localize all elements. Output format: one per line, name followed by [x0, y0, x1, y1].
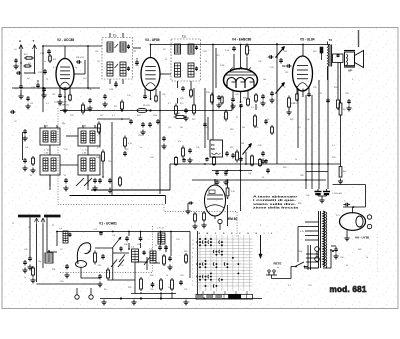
svg-text:mod. 681: mod. 681	[330, 285, 367, 294]
svg-text:R34: R34	[150, 275, 153, 277]
svg-text:R32: R32	[88, 251, 91, 253]
svg-text:5n: 5n	[210, 139, 212, 141]
wire v x197	[197, 231, 199, 299]
cap x162	[161, 136, 166, 149]
resistor R10b	[96, 150, 104, 178]
resistor R10	[82, 103, 90, 115]
svg-text:L2: L2	[28, 227, 30, 229]
fuse cluster	[327, 198, 335, 252]
wire v x319	[318, 80, 320, 189]
svg-text:C38: C38	[345, 93, 348, 95]
svg-text:11: 11	[192, 244, 194, 246]
cap右 C22	[260, 151, 269, 174]
svg-text:R25: R25	[290, 119, 293, 121]
cluster under fono	[214, 150, 238, 185]
V5 pin parts	[294, 93, 311, 106]
potentiometer P1	[276, 47, 288, 64]
capacitor C12	[41, 87, 46, 98]
bus y190 heavy	[91, 189, 170, 191]
svg-text:47k: 47k	[178, 141, 181, 143]
wire V3 to V4	[160, 73, 171, 75]
svg-text:T: T	[33, 39, 35, 43]
svg-text:C11: C11	[30, 103, 33, 105]
svg-text:AP: AP	[348, 69, 352, 73]
svg-text:L27: L27	[97, 61, 100, 63]
dual filter capacitor C30	[315, 189, 343, 203]
V2 right parts	[74, 57, 85, 74]
speaker coupling box	[333, 54, 344, 63]
svg-text:C 100+100: C 100+100	[332, 193, 343, 195]
wire V2 anode	[64, 46, 66, 59]
svg-text:5k: 5k	[64, 175, 66, 177]
coil can L34	[78, 153, 100, 176]
svg-text:R26: R26	[125, 149, 128, 151]
svg-text:C59: C59	[308, 285, 311, 287]
svg-text:A B C D E F G H I L: A B C D E F G H I L	[199, 232, 276, 235]
svg-text:6: 6	[192, 265, 193, 267]
annotation note	[253, 195, 298, 210]
svg-text:1k: 1k	[366, 257, 368, 259]
loudspeaker AP	[344, 51, 364, 73]
svg-text:C52: C52	[143, 253, 146, 255]
speaker col parts	[326, 98, 351, 111]
svg-text:C44: C44	[150, 157, 153, 159]
svg-text:R7: R7	[95, 127, 97, 129]
resistor R21	[338, 167, 347, 184]
svg-text:R9 C26: R9 C26	[143, 105, 151, 107]
T2 below parts	[180, 86, 192, 100]
EM80 anode wire	[214, 180, 216, 185]
svg-text:3: 3	[192, 277, 193, 279]
tube V4	[224, 38, 258, 92]
svg-text:EM 80: EM 80	[228, 217, 237, 221]
capacitor C20a	[38, 69, 47, 75]
cluster x185 y150	[182, 146, 193, 163]
bus y180	[192, 179, 326, 181]
svg-text:0,1: 0,1	[53, 67, 56, 69]
svg-text:C53: C53	[176, 239, 179, 241]
component value labels	[12, 49, 368, 291]
svg-text:C40: C40	[306, 119, 309, 121]
transformer bottom wires	[304, 249, 332, 268]
FONO input box	[210, 140, 223, 157]
svg-text:R11 C14: R11 C14	[76, 57, 85, 59]
svg-text:0,5M: 0,5M	[220, 65, 225, 67]
wave switch 3	[119, 246, 125, 262]
resistor Ra V4	[246, 44, 251, 57]
coil can L31	[40, 126, 60, 146]
mains plug RETE	[266, 262, 296, 279]
svg-text:50: 50	[205, 61, 207, 63]
svg-text:C49: C49	[24, 249, 27, 251]
bus y294	[131, 293, 176, 295]
svg-text:R36: R36	[298, 203, 301, 205]
V2 pins	[60, 88, 70, 97]
V4 right cathode	[255, 93, 266, 110]
svg-text:C56: C56	[150, 289, 153, 291]
resistor R1	[49, 54, 57, 63]
L7 L8 coils	[157, 228, 168, 251]
V5 anode wire	[302, 44, 304, 56]
resistor R22	[226, 180, 235, 199]
tube V2	[56, 38, 74, 90]
junction dots mid	[64, 109, 152, 111]
fono col parts	[203, 114, 273, 159]
svg-text:1,2k: 1,2k	[88, 89, 92, 91]
wire v x306	[305, 95, 307, 189]
bottom bus	[100, 297, 262, 299]
svg-text:C35: C35	[313, 87, 316, 89]
svg-text:4,7: 4,7	[168, 103, 171, 105]
V1 column parts	[94, 251, 110, 287]
V5 grid cap	[282, 64, 292, 68]
svg-text:5p: 5p	[240, 159, 242, 161]
oval resistor R9b	[135, 108, 147, 117]
tube V3	[141, 38, 160, 91]
svg-text:1M: 1M	[284, 51, 287, 53]
antenna terminal T	[33, 39, 37, 72]
wire v x277	[276, 43, 278, 164]
direction arrow	[259, 235, 262, 259]
output transformer T3	[328, 38, 333, 80]
cluster y178	[98, 176, 121, 193]
svg-text:50: 50	[30, 175, 32, 177]
svg-text:1: 1	[192, 285, 193, 287]
svg-text:1M: 1M	[223, 117, 226, 119]
svg-text:R24: R24	[334, 87, 337, 89]
svg-text:1k: 1k	[165, 59, 167, 61]
svg-text:FO: FO	[211, 144, 215, 147]
T2 lower cluster	[175, 88, 196, 121]
svg-text:0,1: 0,1	[251, 107, 254, 109]
faint dotted edge	[377, 234, 379, 272]
wire top bus B+	[150, 44, 330, 46]
svg-text:47n: 47n	[104, 289, 107, 291]
trimmer circles	[75, 288, 93, 299]
coil L6	[150, 249, 157, 264]
svg-text:T.1: T.1	[113, 34, 117, 38]
capacitor C a V4	[225, 46, 236, 52]
svg-text:1k: 1k	[166, 275, 168, 277]
primary winding	[308, 245, 311, 270]
wire v x205	[204, 88, 206, 148]
svg-text:C55: C55	[180, 275, 183, 277]
antenna coil L3	[45, 250, 53, 263]
wire matrix top	[220, 205, 228, 230]
bus y195 heavy	[70, 196, 166, 205]
wire v x160	[159, 91, 161, 194]
svg-text:C30: C30	[162, 94, 165, 96]
wire frontend right	[189, 232, 191, 251]
V4 left parts	[206, 92, 227, 122]
svg-text:4,7: 4,7	[112, 115, 115, 117]
svg-text:1,2k: 1,2k	[231, 191, 235, 193]
T1 caps	[127, 45, 130, 71]
capacitor C5b	[25, 96, 30, 109]
wire input top	[42, 45, 65, 112]
svg-text:47k: 47k	[28, 63, 31, 65]
svg-text:1n: 1n	[267, 119, 269, 121]
model label	[330, 285, 367, 294]
capacitor C9	[14, 84, 24, 99]
svg-text:L1: L1	[12, 223, 14, 225]
wave switch 2	[111, 260, 124, 268]
svg-text:C27: C27	[168, 127, 171, 129]
coil wires	[50, 136, 88, 186]
IF transformer T2 enclosure	[171, 39, 201, 81]
svg-text:C42: C42	[64, 149, 67, 151]
svg-text:5p: 5p	[75, 67, 77, 69]
resistor R6	[114, 100, 123, 112]
svg-text:C51: C51	[112, 235, 115, 237]
svg-text:47: 47	[52, 225, 54, 227]
svg-text:2: 2	[192, 281, 193, 283]
svg-text:T.2: T.2	[182, 35, 186, 39]
potentiometer volume	[241, 143, 253, 167]
svg-text:C4: C4	[14, 49, 16, 51]
V5 pins	[297, 86, 309, 97]
svg-text:C41: C41	[25, 147, 28, 149]
pushbutton strip	[196, 294, 253, 299]
ferrite rod antenna	[18, 216, 61, 224]
svg-text:10: 10	[192, 248, 194, 250]
svg-text:1: 1	[268, 233, 269, 235]
svg-text:5k: 5k	[120, 251, 122, 253]
T2 wires	[178, 81, 192, 88]
bus y164	[170, 163, 341, 165]
svg-text:0,1: 0,1	[288, 285, 291, 287]
svg-text:C18: C18	[70, 115, 73, 117]
T2 primary winding lower	[175, 63, 181, 77]
mid caps under cans	[63, 178, 97, 191]
svg-text:C28: C28	[203, 51, 206, 53]
pushbutton switch matrix	[192, 232, 275, 291]
caps C36 C37	[124, 236, 142, 246]
left col parts	[22, 129, 35, 173]
trimmer diag	[144, 257, 150, 270]
svg-text:V2 - UCC85: V2 - UCC85	[57, 38, 74, 42]
svg-text:L.7 L.8: L.7 L.8	[157, 228, 164, 230]
svg-text:5Y3: 5Y3	[336, 215, 339, 217]
svg-text:RETE: RETE	[274, 262, 282, 266]
svg-text:C33: C33	[270, 67, 273, 69]
wire v x170	[169, 164, 171, 190]
svg-text:V5 - UL84: V5 - UL84	[300, 38, 315, 42]
svg-text:C32: C32	[258, 61, 261, 63]
svg-text:C21: C21	[52, 94, 55, 96]
svg-text:220: 220	[285, 72, 288, 74]
svg-text:220V: 220V	[298, 251, 303, 253]
svg-text:2k: 2k	[168, 287, 170, 289]
V6 ground	[344, 230, 349, 241]
mains switch	[295, 262, 308, 267]
svg-text:R31: R31	[52, 269, 55, 271]
svg-text:220k: 220k	[153, 115, 157, 117]
T2 secondary winding upper	[188, 44, 194, 54]
cluster caps C24 C25	[138, 122, 152, 137]
V3 pins	[145, 89, 156, 99]
loop coupling	[76, 243, 91, 278]
svg-text:L28: L28	[133, 51, 136, 53]
matrix drop wires	[203, 291, 247, 294]
svg-text:25: 25	[262, 177, 264, 179]
T1 primary winding lower	[107, 62, 113, 76]
V6 plate wire	[343, 206, 366, 208]
label V1	[99, 222, 117, 226]
svg-text:R28: R28	[224, 175, 227, 177]
potentiometer P2	[276, 83, 287, 94]
coil can L33	[78, 126, 100, 147]
T1 below cap	[109, 81, 118, 91]
svg-text:R9: R9	[163, 49, 165, 51]
capacitor C10	[31, 80, 40, 89]
svg-text:R30: R30	[332, 157, 335, 159]
IF transformer T1 enclosure	[102, 38, 133, 80]
svg-text:25k: 25k	[242, 127, 245, 129]
wire v x312	[311, 95, 313, 189]
tube EM80	[205, 185, 238, 224]
svg-text:R27: R27	[230, 147, 233, 149]
frontend horiz wires	[81, 248, 160, 280]
svg-text:47: 47	[236, 117, 238, 119]
cluster y120	[97, 113, 187, 135]
wire em80 col	[240, 104, 242, 211]
coil can L32	[40, 153, 60, 176]
svg-text:1n: 1n	[155, 245, 157, 247]
svg-text:L26: L26	[95, 51, 98, 53]
T2 primary winding upper	[175, 44, 181, 54]
labels under cans	[44, 150, 87, 152]
resistor R4	[24, 54, 34, 59]
svg-text:C60: C60	[340, 257, 343, 259]
svg-text:C54: C54	[120, 265, 123, 267]
svg-text:12: 12	[192, 240, 194, 242]
svg-text:C 1k: C 1k	[225, 50, 229, 52]
svg-text:C3: C3	[14, 121, 16, 123]
wire bus y110	[60, 110, 232, 112]
svg-text:8: 8	[192, 256, 193, 258]
capacitor C31	[344, 201, 351, 207]
svg-text:R37: R37	[358, 249, 361, 251]
svg-text:C . 1n: C . 1n	[82, 150, 87, 152]
T1 arrows	[115, 44, 119, 68]
extra frontend parts	[128, 248, 187, 264]
svg-text:C7: C7	[16, 67, 18, 69]
parts x125	[123, 136, 132, 157]
bus y231	[57, 231, 190, 233]
svg-text:R12: R12	[192, 119, 195, 121]
T1 wires	[110, 33, 123, 84]
wire v x340	[340, 63, 342, 167]
left col wire	[21, 132, 23, 160]
svg-text:25: 25	[320, 93, 322, 95]
resistor R16	[286, 96, 295, 115]
svg-text:C25: C25	[135, 65, 138, 67]
bus y164 parts	[175, 156, 268, 167]
speaker drop wires	[337, 63, 339, 99]
wire top T1-V3	[133, 47, 141, 49]
svg-text:R23: R23	[313, 51, 316, 53]
svg-text:C50: C50	[60, 281, 63, 283]
svg-text:T3: T3	[329, 38, 333, 42]
svg-text:1,5k: 1,5k	[127, 95, 131, 97]
svg-text:0,1: 0,1	[332, 145, 335, 147]
coil L5	[131, 247, 139, 271]
capacitor C27	[269, 91, 274, 103]
svg-text:NO: NO	[211, 148, 215, 151]
svg-text:12: 12	[46, 79, 48, 81]
wire y171 link	[306, 171, 328, 173]
svg-text:C46: C46	[258, 145, 261, 147]
svg-text:zione della freccia: zione della freccia	[253, 206, 298, 210]
svg-text:10k: 10k	[263, 79, 266, 81]
svg-text:220: 220	[98, 265, 101, 267]
svg-text:V3 - UF89: V3 - UF89	[145, 38, 160, 42]
bottom grounds	[101, 300, 188, 305]
wire x246 em	[245, 152, 247, 164]
dotted enclosure frontend	[60, 226, 153, 273]
capacitor T1 low	[102, 94, 107, 107]
left frame parts	[10, 110, 16, 114]
heater wire	[298, 227, 305, 263]
svg-text:V1 - UCH81: V1 - UCH81	[99, 222, 117, 226]
V4 top wires	[234, 44, 247, 69]
svg-text:1n: 1n	[140, 147, 142, 149]
svg-text:7: 7	[192, 261, 193, 263]
wire v x112	[111, 122, 113, 195]
svg-text:V6 - UY85: V6 - UY85	[355, 236, 370, 240]
svg-text:C13: C13	[83, 78, 86, 80]
svg-text:9: 9	[192, 252, 193, 254]
svg-text:C45: C45	[196, 147, 199, 149]
lowleft small parts	[22, 260, 35, 283]
svg-text:4: 4	[192, 273, 193, 275]
svg-text:C17: C17	[100, 115, 103, 117]
bus y170	[212, 170, 252, 172]
EM80 grid parts	[185, 202, 206, 229]
svg-text:2M: 2M	[180, 127, 183, 129]
antenna terminal A	[19, 39, 23, 84]
cluster x165 y255	[163, 254, 173, 270]
wire v x232	[231, 102, 233, 111]
wire v x298	[297, 88, 299, 148]
cap C33	[331, 246, 339, 259]
power transformer T4	[305, 211, 327, 268]
switch diag cans	[76, 178, 92, 186]
cap C1	[94, 229, 103, 236]
T1 secondary winding lower	[120, 62, 126, 76]
V3 anode wire	[150, 44, 152, 58]
svg-text:V4 - EABC80: V4 - EABC80	[232, 38, 252, 42]
svg-text:220: 220	[108, 161, 111, 163]
capacitor C8a	[16, 71, 35, 75]
svg-text:1n: 1n	[24, 277, 26, 279]
V4 bottom parts	[221, 94, 250, 109]
V4 bottom pins	[233, 90, 248, 102]
svg-text:R18: R18	[230, 129, 233, 131]
svg-text:0,5: 0,5	[298, 127, 301, 129]
svg-text:R35: R35	[128, 287, 131, 289]
wire B+ down	[333, 185, 366, 208]
svg-text:1k: 1k	[295, 159, 297, 161]
svg-text:50: 50	[346, 265, 348, 267]
svg-text:C47: C47	[248, 173, 251, 175]
svg-text:C48: C48	[300, 175, 303, 177]
rectifier tube V6	[340, 207, 372, 240]
svg-text:C39: C39	[255, 127, 258, 129]
svg-text:4,7k: 4,7k	[128, 143, 132, 145]
svg-text:C . 47: C . 47	[44, 150, 50, 152]
